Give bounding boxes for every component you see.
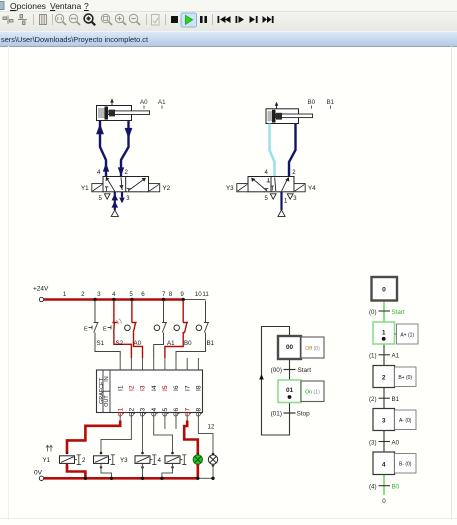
- svg-text:3: 3: [382, 418, 386, 425]
- svg-text:+24V: +24V: [33, 286, 49, 293]
- limit switch contact A0 (closed): [125, 301, 143, 359]
- svg-text:I6: I6: [173, 385, 180, 391]
- svg-text:4: 4: [97, 170, 101, 176]
- action box A-(0): [395, 410, 417, 430]
- svg-text:On (1): On (1): [305, 390, 320, 396]
- cylinder B: [266, 102, 313, 124]
- solenoid Y3: [226, 184, 248, 192]
- step-to-end button: [250, 16, 258, 23]
- svg-text:I2: I2: [129, 385, 136, 391]
- svg-text:B0: B0: [308, 99, 316, 106]
- svg-text:I3: I3: [140, 385, 147, 391]
- svg-text:A- (0): A- (0): [399, 418, 412, 424]
- svg-text:5: 5: [99, 196, 103, 202]
- svg-text:4: 4: [112, 291, 116, 298]
- svg-text:Q4: Q4: [151, 407, 158, 416]
- svg-text:9: 9: [180, 291, 184, 298]
- step 2: [373, 366, 395, 388]
- svg-text:B0: B0: [392, 484, 400, 491]
- svg-text:0: 0: [382, 287, 386, 294]
- solenoid Y4: [294, 184, 316, 192]
- air source symbol (valve V1): [111, 210, 118, 217]
- wire Q8 to lamp P2: [198, 421, 213, 455]
- svg-text:10: 10: [195, 291, 202, 298]
- step 00 (initial): [278, 336, 301, 359]
- svg-text:I4: I4: [151, 385, 158, 391]
- svg-text:11: 11: [202, 291, 209, 298]
- svg-text:4: 4: [382, 462, 386, 469]
- svg-text:I8: I8: [196, 385, 203, 391]
- indicator lamp P1 (lit): [193, 453, 202, 467]
- wire Q4 to coil Y4c: [154, 421, 173, 454]
- transition (3) A0: [369, 439, 400, 446]
- transition (00) Start: [271, 367, 312, 374]
- svg-text:Y3: Y3: [226, 185, 234, 192]
- svg-text:B+ (0): B+ (0): [398, 375, 412, 381]
- svg-text:A+ (1): A+ (1): [400, 333, 414, 339]
- zoom width icon: [69, 14, 80, 25]
- svg-text:5: 5: [129, 291, 133, 298]
- document title bar: [0, 31, 457, 47]
- zoom in icon: [115, 14, 126, 25]
- svg-text:5: 5: [265, 196, 269, 202]
- node A1 label: [158, 99, 166, 109]
- svg-text:8: 8: [169, 291, 173, 298]
- node B0 label: [308, 99, 316, 109]
- coil Y4c: [165, 452, 186, 469]
- svg-text:(1): (1): [369, 353, 377, 360]
- solenoid Y2: [149, 184, 171, 192]
- svg-text:Q6: Q6: [173, 407, 180, 416]
- svg-text:I5: I5: [162, 385, 169, 391]
- step 01 (active): [278, 380, 301, 403]
- svg-text:A1: A1: [392, 353, 400, 360]
- svg-text:(3): (3): [369, 439, 377, 446]
- manual override mark above Y1: [46, 445, 53, 451]
- svg-text:Q3: Q3: [140, 407, 147, 416]
- svg-text:S1: S1: [97, 340, 105, 347]
- wire tube A left (pressurized): [96, 121, 109, 177]
- transition (0) Start: [369, 309, 405, 316]
- svg-text:B- (0): B- (0): [399, 462, 412, 468]
- svg-text:0: 0: [382, 498, 386, 505]
- rail junction nodes: [93, 298, 185, 301]
- svg-text:2: 2: [292, 170, 296, 176]
- svg-text:Q2: Q2: [129, 407, 136, 416]
- svg-text:OUT: OUT: [104, 395, 110, 407]
- action box On(1): [301, 381, 324, 402]
- wire Q3 to coil Y3c: [142, 421, 144, 454]
- svg-text:12: 12: [208, 424, 215, 431]
- play button (active): [181, 13, 197, 27]
- wire coil Y1 to 0V rail: [67, 464, 85, 477]
- pages icon: [40, 15, 47, 25]
- node A0 label: [140, 99, 148, 109]
- exhaust port 5 (valve V1): [104, 194, 110, 199]
- zoom out icon: [129, 14, 140, 25]
- svg-text:Q1: Q1: [117, 407, 124, 416]
- step 4: [373, 452, 395, 475]
- input pin stubs I1-I8: [120, 358, 198, 370]
- wire tube A right (return): [118, 121, 133, 177]
- svg-text:A0: A0: [140, 99, 148, 106]
- svg-text:3: 3: [126, 196, 130, 202]
- svg-text:4: 4: [158, 457, 162, 464]
- 0V return rail: [34, 470, 213, 481]
- svg-text:B1: B1: [207, 340, 215, 347]
- check-drawing icon (disabled): [152, 15, 160, 26]
- zoom fit icon (dark): [84, 14, 95, 25]
- svg-text:Q5: Q5: [162, 407, 169, 416]
- wire coil Y3c to 0V rail: [142, 464, 144, 478]
- svg-text:Y3: Y3: [120, 457, 128, 464]
- step button: [236, 16, 245, 23]
- svg-text:3: 3: [97, 291, 101, 298]
- pin labels I1-I8: [117, 385, 202, 391]
- svg-text:I1: I1: [117, 385, 124, 391]
- svg-text:S2: S2: [116, 340, 124, 347]
- pause button: [200, 16, 207, 23]
- svg-text:6: 6: [141, 291, 145, 298]
- stop button: [171, 16, 178, 23]
- wire coil Y4c to 0V rail: [162, 464, 173, 478]
- svg-text:B1: B1: [327, 99, 335, 106]
- step 3: [373, 409, 395, 431]
- cylinder A: [97, 98, 150, 120]
- svg-text:E: E: [84, 326, 88, 332]
- svg-text:(00): (00): [271, 367, 282, 374]
- svg-text:2: 2: [82, 457, 86, 464]
- supply port 1 with flow arrows (valve V1): [112, 192, 119, 210]
- svg-text:B1: B1: [392, 396, 400, 403]
- action box B+(0): [395, 367, 417, 387]
- valve V2 (5/2-way, cylinder B): [248, 177, 294, 192]
- air source symbol (valve V2): [278, 210, 285, 217]
- svg-text:I7: I7: [184, 385, 191, 391]
- GRAFCET controller block U1: [97, 370, 203, 413]
- run-to-end button: [263, 16, 274, 23]
- transition (4) B0: [369, 484, 400, 491]
- svg-text:7: 7: [162, 291, 166, 298]
- svg-text:A0: A0: [134, 340, 142, 347]
- exhaust port 3 (valve V2): [287, 194, 293, 199]
- svg-text:A1: A1: [158, 99, 166, 106]
- svg-text:B0: B0: [184, 340, 192, 347]
- svg-text:(4): (4): [369, 484, 377, 491]
- node B1 label: [327, 99, 335, 109]
- coil Y2: [94, 452, 115, 469]
- svg-text:Start: Start: [298, 367, 312, 374]
- svg-text:0V: 0V: [34, 470, 43, 477]
- svg-text:Start: Start: [392, 309, 405, 316]
- limit switch contact B0 (closed): [165, 301, 192, 359]
- svg-text:Y1: Y1: [81, 185, 89, 192]
- svg-text:Y2: Y2: [163, 185, 171, 192]
- coil Y1 (energized): [43, 451, 87, 468]
- svg-text:4: 4: [265, 170, 269, 176]
- svg-text:Stop: Stop: [297, 411, 311, 418]
- limit switch contact B1 (open): [176, 301, 215, 359]
- wire Q1 to coil Y1 (energized): [67, 421, 120, 453]
- svg-text:IN: IN: [104, 376, 110, 381]
- wire lamp P2 to 0V rail: [212, 464, 214, 478]
- exhaust flow arrow port 3 (valve V1): [119, 192, 125, 204]
- transition (01) Stop: [271, 411, 310, 418]
- transition (2) B1: [369, 396, 400, 403]
- svg-text:Q8: Q8: [196, 407, 203, 416]
- svg-text:1: 1: [382, 330, 386, 337]
- svg-text:(01): (01): [271, 411, 282, 418]
- svg-text:Y4: Y4: [308, 185, 316, 192]
- svg-text:1: 1: [284, 199, 288, 205]
- +24V supply rail: [33, 286, 206, 302]
- step chain wires (right chart): [383, 301, 385, 496]
- align-horizontal icon: [3, 16, 13, 25]
- svg-text:3: 3: [293, 196, 297, 202]
- wire grafcet loop (main chart): [259, 327, 289, 436]
- svg-text:2: 2: [382, 375, 386, 382]
- supply port 1 line (valve V2): [280, 192, 282, 210]
- step 0 (initial): [372, 277, 398, 301]
- canvas edge lines: [451, 46, 453, 520]
- wire lamp P1 to 0V rail: [197, 464, 200, 477]
- svg-text:2: 2: [125, 170, 129, 176]
- transition (1) A1: [369, 353, 400, 360]
- svg-text:00: 00: [286, 344, 294, 351]
- svg-text:1: 1: [63, 291, 67, 298]
- svg-text:(0): (0): [369, 309, 377, 316]
- exhaust port 5 (valve V2): [270, 194, 276, 199]
- valve V1 (5/2-way, cylinder A): [103, 177, 149, 192]
- wire tube B left (vented, cyan): [270, 124, 275, 177]
- menu bar: [0, 0, 457, 12]
- svg-text:(2): (2): [369, 396, 377, 403]
- svg-text:A0: A0: [392, 439, 400, 446]
- action box A+(1): [395, 324, 419, 344]
- action box B-(0): [395, 454, 417, 474]
- step 1 (active): [373, 322, 395, 344]
- svg-text:2: 2: [81, 291, 85, 298]
- solenoid Y1: [81, 184, 103, 192]
- svg-text:01: 01: [286, 387, 294, 394]
- action box Off(0): [301, 337, 324, 358]
- pin labels Q1-Q8: [117, 407, 202, 416]
- wire Q7 to lamp P1 (energized): [184, 421, 198, 455]
- 0V rail junction nodes: [84, 477, 215, 480]
- limit switch contact A1 (open): [154, 301, 175, 359]
- switch S2 (pushbutton, actuated): [103, 301, 131, 359]
- align-vertical icon: [18, 15, 27, 25]
- zoom region icon: [101, 14, 112, 25]
- svg-text:Y1: Y1: [43, 457, 51, 464]
- skip-to-start button: [218, 16, 231, 23]
- wire Q2 to coil Y2: [101, 421, 131, 454]
- switch S1 (pushbutton): [84, 301, 120, 359]
- valve V1 port labels: [97, 170, 130, 202]
- svg-text:Off (0): Off (0): [305, 346, 320, 352]
- wire tube B right (pressurized): [289, 124, 296, 177]
- toolbar: [0, 12, 457, 31]
- rung column numbers: [63, 291, 210, 298]
- svg-text:Q7: Q7: [184, 407, 191, 416]
- indicator lamp P2: [208, 453, 217, 467]
- wire coil Y2 to 0V rail: [101, 464, 112, 478]
- valve V2 port labels: [265, 170, 298, 205]
- zoom icon 1:1: [55, 14, 66, 25]
- coil Y3c: [120, 452, 162, 469]
- output pin stubs Q1-Q8: [120, 413, 198, 430]
- svg-text:E: E: [103, 326, 107, 332]
